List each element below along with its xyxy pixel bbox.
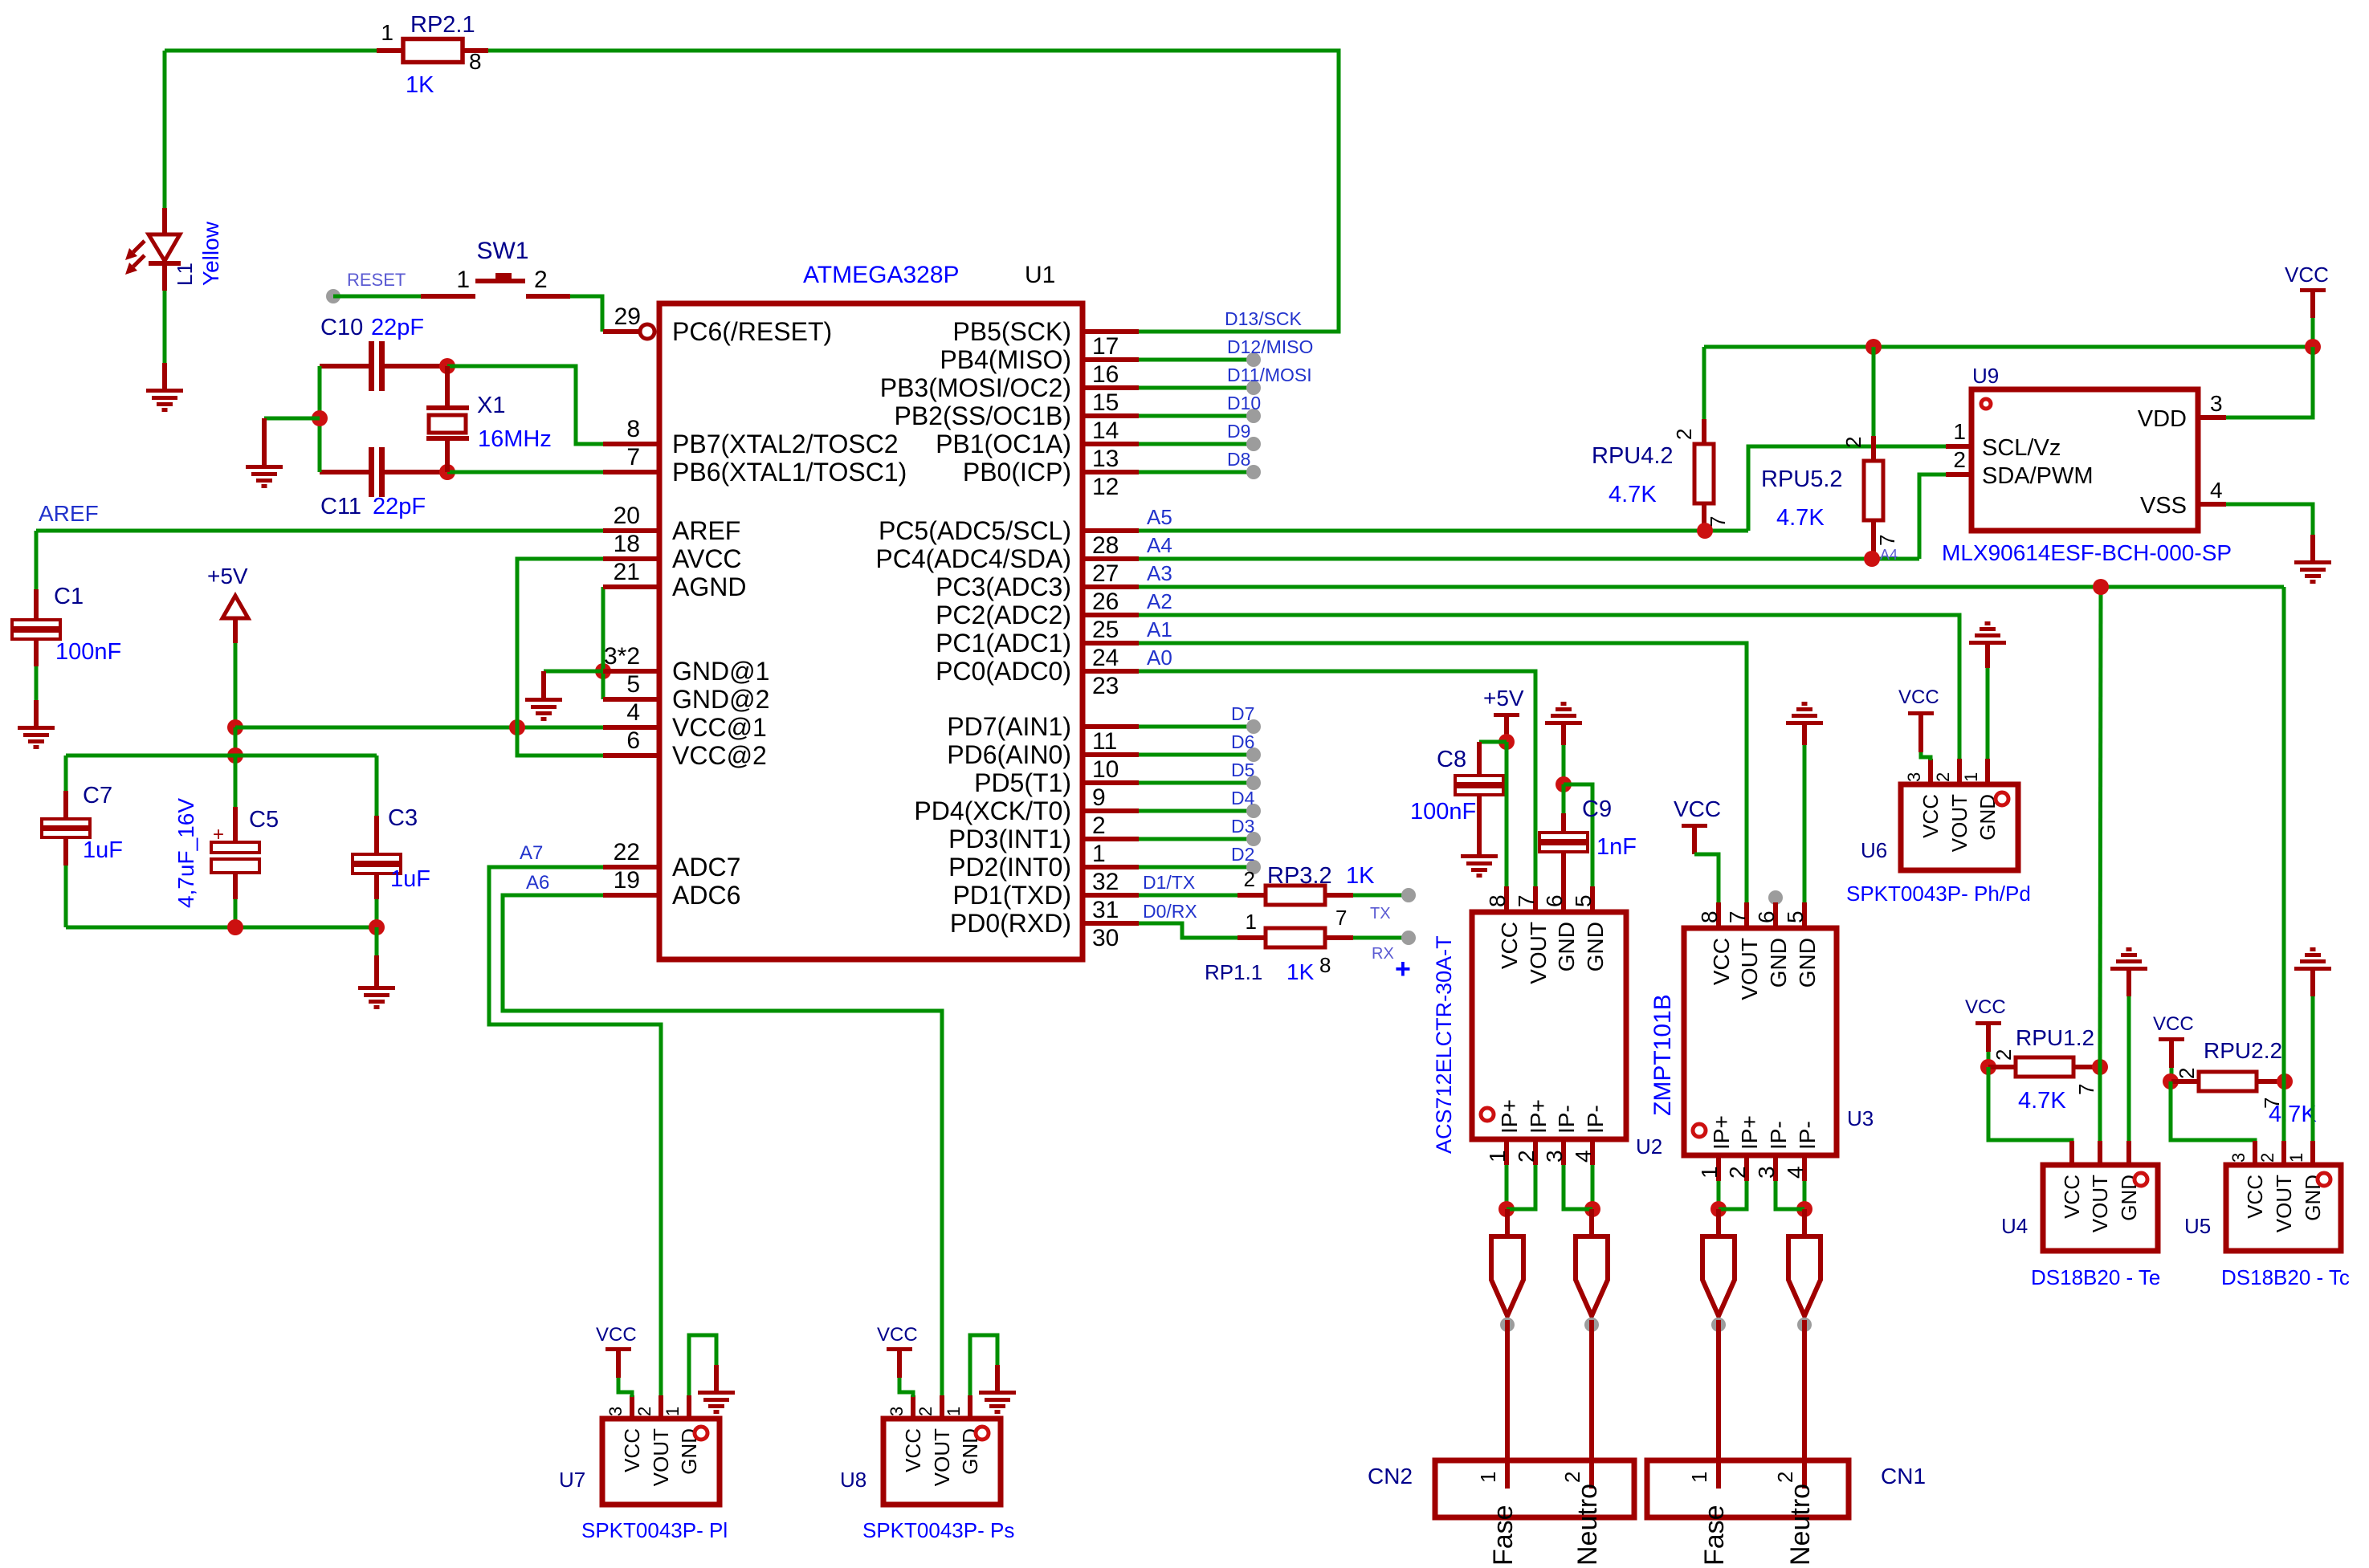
pin 4 IP- of U2 <box>1571 1105 1608 1165</box>
IC U9 MLX90614 body <box>1971 389 2198 531</box>
svg-text:3: 3 <box>606 1407 626 1416</box>
pin 6 VCC@2 of U1 <box>603 727 767 770</box>
switch SW1 <box>421 273 570 296</box>
svg-text:22pF: 22pF <box>371 315 424 340</box>
svg-text:DS18B20 - Tc: DS18B20 - Tc <box>2221 1265 2350 1289</box>
svg-text:VOUT: VOUT <box>2088 1175 2112 1232</box>
svg-text:D2: D2 <box>1231 844 1254 865</box>
wire <box>234 755 238 807</box>
svg-text:5: 5 <box>626 671 640 698</box>
svg-text:+: + <box>1395 954 1411 984</box>
net stub dot D6 <box>1246 747 1261 762</box>
svg-text:VOUT: VOUT <box>1947 794 1971 852</box>
svg-text:7: 7 <box>626 444 640 470</box>
VCC supply symbol of U3 <box>1682 824 1707 828</box>
svg-text:2: 2 <box>1514 1150 1539 1163</box>
svg-text:GND: GND <box>2117 1175 2141 1221</box>
wire net D9 <box>1139 442 1254 446</box>
svg-text:C7: C7 <box>83 783 112 808</box>
net stub RESET <box>326 289 340 303</box>
junction C5 bottom <box>227 919 243 935</box>
svg-text:D6: D6 <box>1231 731 1254 752</box>
ground below C3 <box>358 986 395 1009</box>
svg-text:15: 15 <box>1092 389 1119 416</box>
wire VCC to U7 pin 3 <box>618 1378 632 1397</box>
pin 27 PC4(ADC4/SDA) of U1 <box>875 544 1139 587</box>
ground above U5 <box>2294 947 2331 971</box>
pin 5 GND@2 of U1 <box>603 671 769 714</box>
pin 3 IP- of U3 <box>1754 1121 1791 1181</box>
svg-text:25: 25 <box>1092 617 1119 643</box>
net stub dot D3 <box>1246 832 1261 846</box>
junction RPU1.2 pin7 on Te data <box>2092 1059 2108 1075</box>
svg-text:8: 8 <box>1697 910 1722 923</box>
wire VCC to RPU4.2 <box>1702 347 1706 419</box>
svg-text:VCC: VCC <box>2285 263 2329 287</box>
pin 4 VCC@1 of U1 <box>603 699 767 742</box>
svg-text:28: 28 <box>1092 532 1119 559</box>
pin stub VCC of U7 <box>616 1351 621 1378</box>
wire net D10 <box>1139 414 1254 418</box>
svg-text:6: 6 <box>1754 910 1779 923</box>
net stub dot D12/MISO <box>1246 352 1261 367</box>
svg-text:U5: U5 <box>2184 1214 2211 1238</box>
capacitor C5 4.7uF electrolytic <box>211 755 259 927</box>
svg-text:26: 26 <box>1092 589 1119 615</box>
IC U4 DS18B20 body <box>2043 1165 2158 1251</box>
svg-text:VCC: VCC <box>1918 794 1943 838</box>
pin 6 GND of U3 <box>1754 902 1791 988</box>
svg-text:RX: RX <box>1372 945 1394 963</box>
svg-text:PB7(XTAL2/TOSC2: PB7(XTAL2/TOSC2 <box>672 430 899 458</box>
pin stub ground above U3 <box>1802 725 1807 745</box>
svg-text:+5V: +5V <box>1483 686 1524 711</box>
pin 2 VOUT of U4 <box>2088 1141 2112 1232</box>
pin 25 PC2(ADC2) of U1 <box>936 601 1139 643</box>
svg-text:D1/TX: D1/TX <box>1143 872 1195 893</box>
pin 8 VCC of U2 <box>1485 886 1522 969</box>
svg-text:AREF: AREF <box>672 516 740 545</box>
pin-1 marker of U6 <box>1996 792 2008 805</box>
svg-text:14: 14 <box>1092 417 1119 444</box>
svg-text:12: 12 <box>1092 474 1119 500</box>
pin stub ground of U7 <box>714 1365 719 1391</box>
svg-text:PD7(AIN1): PD7(AIN1) <box>947 712 1071 741</box>
svg-text:U7: U7 <box>559 1468 585 1492</box>
wire VCC to RPU1.2 <box>1987 1052 1991 1067</box>
svg-text:VCC: VCC <box>1709 938 1734 985</box>
wire +5V down <box>234 643 238 727</box>
wire ground to C9 node <box>1562 745 1566 784</box>
svg-text:D0/RX: D0/RX <box>1143 901 1197 922</box>
pin stub VCC of RPU2.2 <box>2169 1041 2174 1068</box>
svg-text:AVCC: AVCC <box>672 544 742 573</box>
wire U2 pin4 down <box>1591 1165 1595 1209</box>
svg-text:1K: 1K <box>1286 959 1315 984</box>
wire U3 pin2 tie <box>1719 1181 1747 1209</box>
resistor RPU1.2 4.7K <box>1988 1057 2100 1077</box>
pin-1 marker of U4 <box>2135 1173 2147 1186</box>
svg-text:L1: L1 <box>173 263 197 286</box>
svg-text:1: 1 <box>1476 1472 1500 1483</box>
IC U2 ACS712 body <box>1472 912 1626 1139</box>
pin 30 PD0(RXD) of U1 <box>950 909 1139 951</box>
wire net D12/MISO <box>1139 358 1254 362</box>
svg-text:1: 1 <box>1092 841 1106 867</box>
wire VCC to U8 pin 3 <box>899 1378 913 1397</box>
svg-text:4: 4 <box>1571 1150 1596 1163</box>
connector contact symbol CN2 Neutro contact <box>1576 1236 1608 1316</box>
pin 1 IP+ of U3 <box>1697 1115 1734 1181</box>
pin stub ground above U5 <box>2310 971 2315 996</box>
svg-text:ADC7: ADC7 <box>672 853 740 882</box>
pin 1 SCL/Vz of U9 <box>1946 419 2061 461</box>
pin 29 PC6(/RESET) of U1 <box>614 303 833 346</box>
wire to VCC@2 pin 6 <box>517 727 603 755</box>
junction U3 pins 1-2 <box>1710 1201 1727 1217</box>
junction A3 branch <box>2093 579 2109 595</box>
pin 1 GND of U5 <box>2286 1141 2325 1221</box>
svg-text:2: 2 <box>1672 429 1696 440</box>
junction AVCC branch <box>509 719 525 735</box>
inverted pin circle on PC6(/RESET) <box>640 324 654 339</box>
svg-text:PD1(TXD): PD1(TXD) <box>952 881 1071 910</box>
wire RESET to SW1 pin1 <box>333 295 421 299</box>
svg-text:D8: D8 <box>1227 449 1250 470</box>
pin line CN1 Fase contact into connector <box>1716 1320 1721 1489</box>
wire A4 from PC4 <box>1139 557 1919 561</box>
svg-text:GND: GND <box>1766 938 1791 988</box>
svg-text:IP+: IP+ <box>1737 1115 1762 1150</box>
pin 4 VSS of U9 <box>2140 478 2226 519</box>
svg-text:PD3(INT1): PD3(INT1) <box>948 825 1071 853</box>
svg-text:2: 2 <box>534 267 548 293</box>
wire U3 pin4 down <box>1803 1181 1807 1209</box>
pin line CN2 Fase contact into connector <box>1505 1320 1510 1489</box>
wire A5 from PC5 <box>1139 529 1748 533</box>
svg-text:2: 2 <box>1092 813 1106 839</box>
wire VCC to U6 pin 3 <box>1921 752 1931 760</box>
svg-text:1: 1 <box>456 267 470 293</box>
pin 32 PD2(INT0) of U1 <box>948 853 1139 895</box>
wire U2 pin2 tie <box>1507 1165 1535 1209</box>
svg-text:Fase: Fase <box>1488 1505 1519 1566</box>
svg-text:19: 19 <box>614 867 640 894</box>
net stub dot D5 <box>1246 776 1261 790</box>
wire A7 ADC7 to U7 VOUT <box>489 867 661 1395</box>
junction C10 / X1 / PB7 <box>439 358 455 374</box>
svg-text:PC2(ADC2): PC2(ADC2) <box>936 601 1071 629</box>
junction C11 / X1 / PB6 <box>439 464 455 480</box>
resistor RP2.1 1K <box>377 39 488 63</box>
svg-text:U1: U1 <box>1025 262 1055 288</box>
wire LED cathode to ground <box>163 291 167 363</box>
net stub dot D2 <box>1246 860 1261 874</box>
svg-text:1: 1 <box>381 20 393 45</box>
svg-text:8: 8 <box>626 416 640 442</box>
net stub dot CN1 Neutro contact <box>1797 1318 1812 1332</box>
pin 3 VCC of U5 <box>2228 1141 2267 1219</box>
net stub dot CN1 Fase contact <box>1711 1318 1726 1332</box>
svg-text:D5: D5 <box>1231 760 1254 780</box>
svg-text:8: 8 <box>1319 953 1331 977</box>
IC U5 DS18B20 body <box>2226 1165 2341 1251</box>
svg-text:1K: 1K <box>406 72 434 98</box>
net stub dot D11/MOSI <box>1246 381 1261 395</box>
svg-text:17: 17 <box>1092 333 1119 360</box>
pin 3 VCC of U7 <box>606 1395 644 1472</box>
pin 17 PB5(SCK) of U1 <box>952 317 1139 360</box>
wire U8 GND <box>970 1335 997 1395</box>
svg-text:7: 7 <box>1335 906 1347 930</box>
svg-text:3: 3 <box>887 1407 907 1416</box>
wire net D6 <box>1139 753 1254 757</box>
svg-text:VCC: VCC <box>877 1324 918 1346</box>
capacitor C9 1nF <box>1539 784 1588 912</box>
wire net D4 <box>1139 809 1254 813</box>
svg-text:Neutro: Neutro <box>1785 1484 1816 1566</box>
svg-text:VCC: VCC <box>2243 1175 2267 1219</box>
wire RP2.1 pin8 to PB5/D13 <box>488 51 1339 332</box>
svg-text:8: 8 <box>1485 894 1510 907</box>
svg-text:23: 23 <box>1092 673 1119 699</box>
svg-text:9: 9 <box>1092 784 1106 811</box>
svg-text:PB3(MOSI/OC2): PB3(MOSI/OC2) <box>880 373 1071 402</box>
wire RPU1.2 to U4 VCC <box>1988 1067 2072 1142</box>
svg-text:SPKT0043P- Ph/Pd: SPKT0043P- Ph/Pd <box>1846 882 2031 906</box>
pin 16 PB4(MISO) of U1 <box>940 345 1139 388</box>
pin stub VCC of U3 <box>1692 828 1697 854</box>
wire to GND@2 <box>601 671 606 699</box>
pin 2 VOUT of U5 <box>2257 1141 2296 1232</box>
svg-text:PB0(ICP): PB0(ICP) <box>963 458 1071 487</box>
pin 3*2 GND@1 of U1 <box>603 643 769 686</box>
pin 15 PB3(MOSI/OC2) of U1 <box>880 373 1139 416</box>
junction C9 / U2 pin5 <box>1556 776 1572 792</box>
svg-text:VOUT: VOUT <box>2272 1175 2296 1232</box>
pin 1 GND of U7 <box>663 1395 701 1475</box>
svg-text:VOUT: VOUT <box>1737 938 1762 1000</box>
crystal X1 16MHz <box>426 366 469 472</box>
net stub dot D8 <box>1246 465 1261 479</box>
pin 3 IP- of U2 <box>1542 1105 1579 1165</box>
svg-text:U4: U4 <box>2001 1214 2028 1238</box>
svg-text:TX: TX <box>1370 905 1391 922</box>
pin 24 PC1(ADC1) of U1 <box>936 629 1139 671</box>
pin 1 GND of U4 <box>2117 1141 2141 1221</box>
pin 2 VOUT of U7 <box>634 1395 673 1486</box>
pin stub ground of U8 <box>995 1365 1000 1391</box>
svg-text:7: 7 <box>2074 1084 2098 1095</box>
VCC supply symbol of U6 <box>1908 711 1934 715</box>
wire VCC rail <box>1704 345 2313 349</box>
pin 3 VCC of U8 <box>887 1395 925 1472</box>
net stub dot D9 <box>1246 437 1261 451</box>
pin 3 VDD of U9 <box>2138 391 2226 432</box>
svg-text:7: 7 <box>1725 910 1750 923</box>
wire A2 from PC2 to U6 VOUT <box>1139 615 1959 759</box>
svg-text:IP+: IP+ <box>1497 1099 1522 1134</box>
svg-text:6: 6 <box>1542 894 1567 907</box>
ground above C9 <box>1545 702 1582 725</box>
net stub dot U3 pin 6 <box>1768 890 1783 905</box>
svg-text:VCC: VCC <box>1898 686 1939 708</box>
wire VCC stub to rail <box>2311 318 2315 347</box>
junction crystal caps to ground <box>312 410 328 426</box>
svg-text:2: 2 <box>1933 772 1953 782</box>
svg-text:PC5(ADC5/SCL): PC5(ADC5/SCL) <box>879 516 1071 545</box>
svg-text:VCC: VCC <box>2153 1013 2194 1035</box>
svg-text:C11: C11 <box>320 494 361 519</box>
ground above U6 <box>1969 621 2006 645</box>
pin 1 IP+ of U2 <box>1485 1099 1522 1165</box>
svg-text:IP-: IP- <box>1766 1121 1791 1150</box>
svg-text:4: 4 <box>2210 478 2223 503</box>
wire net D5 <box>1139 781 1254 785</box>
svg-text:22: 22 <box>614 839 640 865</box>
svg-text:22pF: 22pF <box>373 494 426 519</box>
svg-text:A2: A2 <box>1147 589 1172 613</box>
pin stub U1 ground <box>541 671 546 698</box>
svg-text:RPU1.2: RPU1.2 <box>2016 1025 2094 1050</box>
wire ground to U5 GND <box>2311 996 2315 1141</box>
svg-text:AGND: AGND <box>672 572 746 601</box>
svg-text:PB5(SCK): PB5(SCK) <box>952 317 1071 346</box>
VCC supply symbol of U7 <box>606 1347 631 1351</box>
svg-text:4: 4 <box>1783 1166 1808 1179</box>
svg-text:5: 5 <box>1783 910 1808 923</box>
pin 6 GND of U2 <box>1542 886 1579 971</box>
svg-text:29: 29 <box>614 303 641 330</box>
svg-text:PB6(XTAL1/TOSC1): PB6(XTAL1/TOSC1) <box>672 458 907 487</box>
svg-text:1K: 1K <box>1346 863 1375 889</box>
ground of crystal caps <box>246 465 283 488</box>
wire <box>64 865 68 927</box>
net stub dot D7 <box>1246 719 1261 734</box>
svg-text:IP-: IP- <box>1795 1121 1820 1150</box>
wire A3 from PC3 <box>1139 585 2284 589</box>
svg-text:DS18B20 - Te: DS18B20 - Te <box>2031 1265 2160 1289</box>
wire U7 GND <box>689 1335 716 1395</box>
wire D13 net to RP2.1 pin1 <box>165 49 377 53</box>
svg-text:Fase: Fase <box>1699 1505 1730 1566</box>
wire A0 from PC0 to U2 VOUT <box>1139 671 1535 886</box>
ground below LED L1 <box>146 389 183 412</box>
svg-text:D11/MOSI: D11/MOSI <box>1227 365 1312 385</box>
svg-text:16: 16 <box>1092 361 1119 388</box>
svg-text:2: 2 <box>2257 1153 2277 1163</box>
svg-text:Neutro: Neutro <box>1572 1484 1603 1566</box>
wire +5V to capacitor rail <box>234 727 238 755</box>
svg-text:RP2.1: RP2.1 <box>410 12 475 38</box>
svg-text:A4: A4 <box>1880 547 1898 563</box>
pin stub +5V at U2 <box>1504 717 1509 742</box>
wire A4 up to SDA <box>1919 474 1946 559</box>
junction RPU2.2 pin7 on Tc data <box>2277 1073 2293 1089</box>
svg-text:ACS712ELCTR-30A-T: ACS712ELCTR-30A-T <box>1432 935 1456 1154</box>
capacitor C3 1uF <box>353 755 401 927</box>
wire U6 GND up <box>1986 668 1990 759</box>
net stub dot D10 <box>1246 409 1261 423</box>
connector contact symbol CN1 Neutro contact <box>1788 1236 1821 1316</box>
svg-text:7: 7 <box>1875 535 1899 546</box>
svg-text:21: 21 <box>614 559 640 585</box>
pin 21 AGND of U1 <box>603 559 746 601</box>
junction U3 pins 3-4 <box>1796 1201 1812 1217</box>
svg-text:32: 32 <box>1092 869 1119 895</box>
svg-text:+: + <box>213 824 224 845</box>
svg-text:PD2(INT0): PD2(INT0) <box>948 853 1071 882</box>
svg-text:GND: GND <box>958 1428 982 1475</box>
IC U1 ATMEGA328P body <box>659 303 1083 959</box>
resistor RPU4.2 4.7K <box>1694 419 1714 531</box>
svg-text:MLX90614ESF-BCH-000-SP: MLX90614ESF-BCH-000-SP <box>1942 540 2232 565</box>
pin stub VCC of U8 <box>897 1351 902 1378</box>
wire VCC to VDD pin 3 <box>2226 347 2313 417</box>
svg-text:GND: GND <box>1554 922 1579 971</box>
+5V supply bar at U2 <box>1494 713 1519 717</box>
svg-text:PB2(SS/OC1B): PB2(SS/OC1B) <box>894 401 1071 430</box>
wire AREF to pin 20 <box>36 529 603 533</box>
svg-text:ADC6: ADC6 <box>672 881 740 910</box>
pin stub VCC of RPU1.2 <box>1986 1025 1991 1052</box>
svg-text:RESET: RESET <box>347 270 406 290</box>
net stub dot RX <box>1401 931 1416 945</box>
net stub dot CN2 Fase contact <box>1500 1318 1515 1332</box>
svg-text:VOUT: VOUT <box>649 1428 673 1486</box>
pin stub +5V <box>233 618 238 643</box>
svg-text:D3: D3 <box>1231 816 1254 837</box>
ground of U9 VSS <box>2294 560 2331 584</box>
junction RPU5.2 top <box>1865 339 1882 355</box>
wire RPU2.2 to U5 VCC <box>2171 1081 2255 1142</box>
wire net D11/MOSI <box>1139 386 1254 390</box>
pin stub crystal ground <box>262 418 267 465</box>
svg-text:Yellow: Yellow <box>198 221 223 286</box>
wire caps to ground <box>264 417 320 421</box>
svg-text:1nF: 1nF <box>1596 834 1637 860</box>
wire net D8 <box>1139 470 1254 474</box>
svg-text:A4: A4 <box>1147 533 1172 557</box>
pin 5 GND of U3 <box>1783 902 1820 988</box>
net stub dot CN2 Neutro contact <box>1584 1318 1599 1332</box>
svg-text:100nF: 100nF <box>1410 799 1476 825</box>
pin stub ground above C9 <box>1561 725 1566 745</box>
svg-text:C5: C5 <box>249 807 279 833</box>
wire node to U2 GND pin 5 <box>1564 784 1592 886</box>
svg-text:4: 4 <box>626 699 640 726</box>
svg-text:SPKT0043P- Ps: SPKT0043P- Ps <box>862 1518 1014 1542</box>
svg-text:2: 2 <box>1725 1166 1750 1179</box>
svg-text:VOUT: VOUT <box>930 1428 954 1486</box>
svg-text:4.7K: 4.7K <box>1609 482 1657 507</box>
svg-text:8: 8 <box>469 49 482 74</box>
svg-text:A5: A5 <box>1147 505 1172 529</box>
capacitor C1 100nF <box>12 589 60 666</box>
svg-text:100nF: 100nF <box>55 639 121 665</box>
svg-text:ATMEGA328P: ATMEGA328P <box>803 262 960 288</box>
svg-text:A6: A6 <box>526 872 549 894</box>
wire A5 up to SCL <box>1748 446 1946 531</box>
pin stub rail ground <box>374 955 379 986</box>
pin 18 AVCC of U1 <box>603 531 742 573</box>
wire A3 branch down to RPU1.2/U4 <box>2100 587 2101 1067</box>
svg-text:AREF: AREF <box>39 501 99 526</box>
junction RPU2.2 pin2 <box>2163 1073 2179 1089</box>
VCC supply symbol of U8 <box>887 1347 912 1351</box>
capacitor C8 100nF <box>1455 742 1503 854</box>
wire U2 pin1 down <box>1505 1165 1509 1209</box>
